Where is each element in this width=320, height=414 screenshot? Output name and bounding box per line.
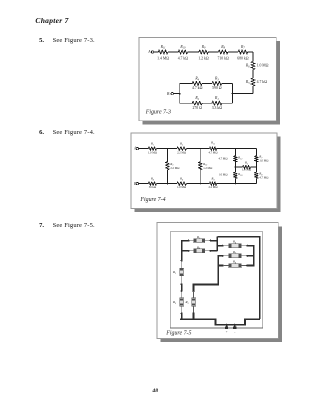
resistor R7 (238, 50, 248, 54)
wire top branch mid (202, 82, 212, 84)
vertical resistor R12 4.7 Mohm (234, 149, 236, 156)
wire (255, 167, 257, 172)
resistor R6 (222, 245, 224, 247)
wire (157, 148, 168, 150)
wire (186, 148, 200, 150)
svg-text:+: + (226, 330, 228, 334)
svg-text:1.2 MΩ: 1.2 MΩ (203, 166, 212, 170)
wire right edge (255, 149, 257, 156)
resistor R1 (181, 261, 183, 269)
wire right vertical top (252, 52, 254, 62)
wire (200, 148, 209, 150)
svg-text:1.0 MΩ: 1.0 MΩ (242, 168, 251, 172)
wire (186, 183, 200, 185)
resistor R9 (199, 50, 208, 54)
wire bottom trace with connector notch (180, 319, 260, 325)
resistor R1 3.3 kohm (212, 101, 222, 105)
figure 7-5 box shadow (278, 227, 282, 343)
wire (255, 162, 257, 167)
svg-text:1.4 MΩ: 1.4 MΩ (157, 56, 169, 60)
svg-text:2.2 MΩ: 2.2 MΩ (208, 185, 217, 189)
junction (167, 183, 169, 185)
svg-text:2.2 MΩ: 2.2 MΩ (170, 166, 179, 170)
item 6 (39, 129, 44, 136)
junction (181, 312, 183, 314)
svg-text:4.7 MΩ: 4.7 MΩ (208, 151, 217, 155)
junction (188, 250, 190, 252)
junction left node (179, 93, 181, 95)
wire bottom edge (235, 183, 256, 185)
resistor R11 4.7 Mohm (210, 147, 217, 151)
svg-text:2.2 MΩ: 2.2 MΩ (177, 151, 186, 155)
junction (210, 240, 212, 242)
wire bus1 right of R2 R4 (211, 240, 218, 242)
wire B to block (173, 93, 180, 95)
wire between vertical resistors (252, 70, 254, 79)
svg-text:4.7 MΩ: 4.7 MΩ (218, 156, 227, 160)
wire chain to right corner (248, 51, 253, 53)
junction (235, 166, 237, 168)
junction right node (232, 93, 234, 95)
vertical resistor R10 10 Mohm (234, 167, 236, 172)
junction (210, 250, 212, 252)
junction (181, 283, 183, 285)
wire R1 to R5 (181, 284, 183, 291)
wire (167, 183, 177, 185)
wire (217, 148, 236, 150)
wire (188, 51, 199, 53)
wire A to R1 (138, 148, 148, 150)
junction (181, 290, 183, 292)
svg-text:1.2 kΩ: 1.2 kΩ (198, 56, 209, 60)
junction (255, 166, 257, 168)
figure 7-4 box (131, 133, 277, 209)
resistor R9 2.2 Mohm (210, 182, 217, 186)
resistor R10 (178, 50, 187, 54)
wire R3 to bottom trace (193, 314, 195, 320)
svg-text:270 Ω: 270 Ω (192, 106, 202, 110)
resistor R7 1.0 Mohm (255, 156, 259, 162)
terminal pin 1 (226, 324, 228, 326)
wire (255, 178, 257, 183)
svg-text:Figure 7-5: Figure 7-5 (165, 330, 191, 336)
junction (167, 148, 169, 150)
page number 48 (152, 388, 158, 394)
wire (168, 51, 178, 53)
junction (188, 240, 190, 242)
resistor R2 2.2 Mohm (177, 147, 187, 151)
wire block left vertical (179, 83, 181, 103)
svg-text:4.7 kΩ: 4.7 kΩ (257, 80, 268, 84)
wire (208, 51, 218, 53)
resistor R8 (219, 50, 228, 54)
circuit board outline (170, 232, 262, 328)
wire R5 to bottom trace (181, 314, 183, 320)
svg-text:4.7 kΩ: 4.7 kΩ (192, 86, 203, 90)
svg-text:1.0 MΩ: 1.0 MΩ (177, 185, 186, 189)
wire bottom branch mid (202, 102, 212, 104)
page heading Chapter 7 (35, 17, 68, 26)
svg-text:590 Ω: 590 Ω (212, 86, 222, 90)
wire bottom branch left (180, 102, 193, 104)
resistor R5 (181, 291, 183, 298)
wire (228, 51, 238, 53)
wire B to R4 (138, 183, 148, 185)
resistor R2 270 ohm (192, 101, 202, 105)
wire top trace (217, 237, 259, 320)
svg-text:1.0 MΩ: 1.0 MΩ (259, 159, 268, 163)
junction (199, 148, 201, 150)
wire bottom branch right (222, 102, 233, 104)
wire (217, 183, 236, 185)
terminal pin 2 (234, 324, 236, 326)
junction (199, 183, 201, 185)
resistor R4 4.7 kohm (192, 81, 202, 85)
junction (235, 183, 237, 185)
svg-text:1.0 MΩ: 1.0 MΩ (148, 151, 157, 155)
resistor R11 (158, 50, 168, 54)
junction (192, 290, 194, 292)
resistor R4 (189, 250, 194, 252)
wire top branch left (180, 82, 193, 84)
figure 7-5 box (157, 223, 278, 339)
junction (181, 260, 183, 262)
svg-text:56 kΩ: 56 kΩ (149, 185, 156, 189)
resistor R4 56 kohm (148, 182, 156, 186)
svg-text:710 kΩ: 710 kΩ (217, 56, 229, 60)
resistor R3 590 ohm (212, 81, 222, 85)
wire (200, 183, 209, 185)
junction (235, 148, 237, 150)
wire (157, 183, 168, 185)
svg-text:680 kΩ: 680 kΩ (237, 56, 249, 60)
wire right vertical bottom (252, 86, 254, 94)
resistor R1 1.0 Mohm (148, 147, 156, 151)
resistor R6 1.0 Mohm (177, 182, 187, 186)
item 5 (39, 37, 44, 44)
wire trio right bus (247, 246, 253, 266)
resistor R8 (222, 264, 224, 266)
junction (192, 312, 194, 314)
svg-text:Figure 7-3: Figure 7-3 (145, 109, 171, 115)
svg-text:10 MΩ: 10 MΩ (219, 173, 227, 177)
resistor R6 vertical 1.0 Mohm (251, 62, 255, 70)
item 7 (39, 222, 44, 229)
figure 7-4 box shadow (277, 137, 281, 213)
figure 7-3 box (139, 38, 276, 121)
wire block right vertical (232, 83, 234, 103)
svg-text:Figure 7-4: Figure 7-4 (139, 197, 165, 203)
vertical resistor R3 2.2 Mohm (166, 149, 168, 162)
resistor R7 (222, 255, 224, 257)
figure 7-3 box shadow (276, 41, 280, 125)
wire A to R11 (154, 51, 159, 53)
wire left bus with arms (182, 241, 189, 261)
wire bottom to parallel block (233, 93, 254, 95)
wire arm to row1 (217, 245, 222, 247)
svg-text:1.0 MΩ: 1.0 MΩ (257, 64, 269, 68)
wire top branch right (222, 82, 233, 84)
vertical resistor R13 1.2 Mohm (199, 149, 201, 162)
svg-text:3.3 kΩ: 3.3 kΩ (212, 106, 223, 110)
resistor R8 4.7 Mohm (255, 172, 259, 178)
resistor R2 (189, 240, 194, 242)
svg-text:−: − (234, 330, 236, 334)
resistor R5 vertical 4.7 kohm (251, 78, 255, 86)
resistor R5 1.0 Mohm horizontal mid (235, 166, 242, 168)
wire top to corner (235, 148, 256, 150)
wire (167, 148, 177, 150)
resistor R3 (193, 291, 195, 298)
wire bus2 down to lower-left (194, 256, 223, 291)
svg-text:4.7 kΩ: 4.7 kΩ (178, 56, 189, 60)
svg-text:4.7 MΩ: 4.7 MΩ (259, 175, 268, 179)
